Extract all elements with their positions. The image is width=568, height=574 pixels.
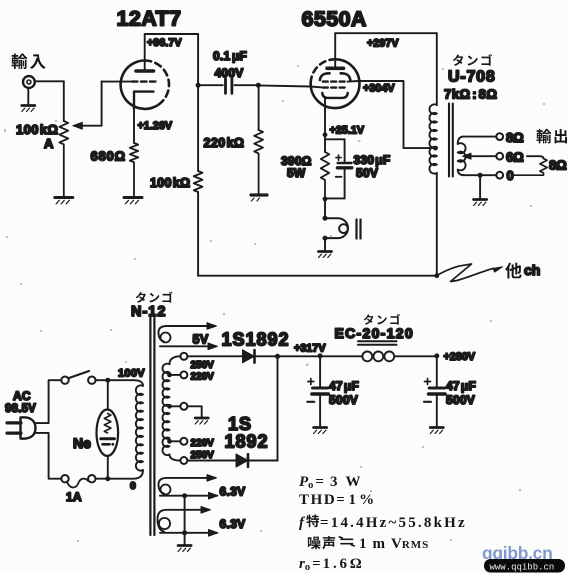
- V1 grid lead wire: [102, 81, 132, 83]
- node D2 join: [275, 354, 280, 359]
- svg-text:ro=1.6Ω: ro=1.6Ω: [299, 556, 365, 573]
- svg-text:+1.26V: +1.26V: [138, 120, 173, 132]
- svg-text:6.3V: 6.3V: [220, 517, 246, 531]
- terminal 8Ω: [496, 133, 503, 140]
- svg-text:400V: 400V: [215, 66, 244, 80]
- spec text 噪声=1mVrms: [308, 536, 429, 552]
- svg-text:1892: 1892: [225, 432, 269, 452]
- tap center with ground: [167, 403, 208, 424]
- T2 6.3V winding 1: [159, 475, 219, 499]
- svg-text:5V: 5V: [193, 333, 209, 347]
- tap 220V top: [167, 371, 187, 378]
- V1 cathode: [134, 92, 154, 109]
- svg-text:8Ω: 8Ω: [549, 158, 567, 173]
- svg-text:=14.4Hz~55.8kHz: =14.4Hz~55.8kHz: [320, 515, 467, 531]
- wiper arrow of VR1: [73, 81, 102, 129]
- svg-text:220V: 220V: [191, 438, 215, 449]
- ground (C4): [430, 428, 443, 434]
- ground (C3): [314, 428, 327, 434]
- svg-text:100V: 100V: [118, 368, 145, 380]
- svg-text:Ne: Ne: [73, 435, 91, 451]
- ground (pot): [55, 198, 73, 204]
- V1 grid: [132, 80, 156, 82]
- svg-text:U-708: U-708: [448, 69, 496, 86]
- svg-text:N-12: N-12: [131, 304, 166, 320]
- svg-text:7kΩ:8Ω: 7kΩ:8Ω: [444, 87, 497, 102]
- wire B+ rail drop to OPT primary: [436, 33, 438, 105]
- input jack J1: [23, 76, 35, 88]
- svg-text:0.1μF: 0.1μF: [213, 49, 247, 63]
- tap 220V bottom: [167, 438, 187, 445]
- T2 6.3V winding 2: [158, 507, 219, 537]
- T1 core: [449, 104, 453, 177]
- svg-text:5W: 5W: [287, 166, 306, 180]
- label input 輸入: [11, 53, 45, 68]
- svg-text:330μF: 330μF: [354, 153, 391, 167]
- fuse F1 1A: [61, 475, 95, 487]
- wire plug to fuse: [36, 433, 62, 479]
- T2 core: [150, 318, 154, 536]
- V2 cathode: [322, 93, 347, 98]
- V2 control grid: [323, 86, 348, 88]
- svg-text:12AT7: 12AT7: [117, 7, 182, 31]
- wire 8Ω tap: [464, 136, 497, 138]
- transformer T1 primary: [429, 104, 436, 173]
- load resistor 8Ω: [513, 156, 547, 175]
- scan speckles: [4, 65, 545, 542]
- svg-text:+96.7V: +96.7V: [147, 37, 182, 49]
- svg-text:0: 0: [130, 480, 136, 492]
- svg-text:98.5V: 98.5V: [5, 403, 36, 415]
- capacitor C4 47μF 500V: [424, 379, 445, 427]
- filament of V2: [323, 216, 349, 241]
- label 他ch: [505, 262, 540, 278]
- wire fuse to 0 tap: [96, 478, 134, 480]
- node UL tap: [433, 146, 438, 151]
- tube V2 6550A envelope: [311, 59, 360, 108]
- ground bar (R4): [251, 195, 267, 201]
- T1 secondary: [458, 137, 466, 176]
- V2 beam plates: [320, 73, 350, 80]
- svg-text:220V: 220V: [191, 372, 215, 383]
- choke L1 core: [358, 341, 397, 345]
- label タンゴ (OPT): [453, 54, 492, 66]
- T1 primary bottom lead: [436, 173, 438, 276]
- choke L1: [320, 352, 437, 362]
- node Ne bottom: [105, 476, 110, 481]
- svg-text:www.qqibb.cn: www.qqibb.cn: [490, 563, 555, 573]
- svg-text:680Ω: 680Ω: [91, 149, 126, 164]
- V1 plate: [136, 34, 154, 71]
- AC plug: [7, 417, 36, 438]
- terminal 250V bottom: [180, 457, 187, 464]
- node rail / other channel: [434, 273, 439, 278]
- ground (R2): [124, 198, 142, 204]
- svg-text:1A: 1A: [66, 490, 82, 504]
- svg-text:100kΩ: 100kΩ: [16, 122, 58, 137]
- svg-text:220kΩ: 220kΩ: [204, 136, 245, 150]
- svg-text:ch: ch: [524, 262, 540, 278]
- terminal 6Ω: [496, 153, 503, 160]
- terminal 250V top: [180, 353, 187, 360]
- heater ground bus: [178, 493, 191, 551]
- svg-text:50V: 50V: [356, 166, 378, 180]
- node secondary ground junction: [478, 173, 483, 178]
- heater bars: [357, 220, 361, 239]
- capacitor C2 330μF 50V: [336, 139, 352, 198]
- wire V1 top rail: [145, 33, 198, 35]
- T2 5V winding: [159, 323, 218, 350]
- wire V2 top rail +297V: [335, 32, 437, 34]
- capacitor C3 47μF 500V: [307, 356, 328, 426]
- label タンゴ (PT): [136, 292, 173, 303]
- wire switch to 100V tap: [96, 379, 134, 381]
- svg-text:8Ω: 8Ω: [506, 130, 524, 145]
- svg-text:1mVRMS: 1mVRMS: [359, 536, 429, 552]
- svg-text:Po=3W: Po=3W: [299, 474, 360, 491]
- svg-text:+304V: +304V: [363, 83, 395, 95]
- T2 HT secondary: [163, 356, 180, 460]
- wire cathode bracket top: [325, 138, 345, 140]
- node +317V: [318, 353, 323, 358]
- V2 cathode lead: [324, 98, 326, 139]
- svg-text:EC-20-120: EC-20-120: [335, 325, 414, 341]
- resistor R4 220kΩ grid leak: [254, 85, 263, 193]
- node Ne top: [105, 378, 110, 383]
- tube V1 12AT7 envelope: [121, 60, 169, 108]
- V2 plate: [327, 33, 344, 68]
- wire jack to pot top: [35, 80, 64, 82]
- watermark pill: [484, 559, 565, 573]
- svg-text:250V: 250V: [191, 450, 215, 461]
- svg-text:500V: 500V: [446, 393, 475, 407]
- label タンゴ (choke): [364, 314, 400, 325]
- wire plug to switch: [36, 380, 62, 423]
- svg-text:AC: AC: [13, 389, 31, 403]
- wire junction to V2 grid: [258, 85, 323, 87]
- svg-text:100kΩ: 100kΩ: [150, 176, 190, 190]
- svg-text:THD=1%: THD=1%: [299, 492, 376, 508]
- resistor R2 680Ω: [130, 143, 138, 196]
- svg-text:A: A: [44, 136, 54, 151]
- label 輸出: [536, 129, 567, 144]
- node C1/R4 junction: [256, 83, 261, 88]
- transformer T2 primary: [134, 380, 144, 479]
- wire 0 tap: [464, 174, 497, 176]
- svg-text:+280V: +280V: [444, 351, 476, 363]
- svg-text:6.3V: 6.3V: [220, 485, 246, 499]
- svg-text:+25.1V: +25.1V: [330, 125, 365, 137]
- spec text f特=14.4Hz~55.8kHz: [299, 515, 467, 531]
- resistor R3 100kΩ plate load: [194, 171, 203, 192]
- svg-text:47μF: 47μF: [446, 379, 476, 393]
- node cathode +25.1V: [323, 132, 328, 137]
- wire cathode bracket bottom: [325, 197, 345, 199]
- ground (jack): [22, 88, 35, 112]
- svg-text:6550A: 6550A: [302, 7, 367, 31]
- resistor R5 390Ω 5W: [321, 139, 329, 198]
- ground (secondary): [474, 175, 487, 205]
- neon lamp Ne: [97, 380, 119, 479]
- svg-text:47μF: 47μF: [329, 379, 359, 393]
- svg-text:250V: 250V: [191, 360, 215, 371]
- wire plate rail drop to coupling node: [197, 34, 199, 171]
- wire 6Ω tap with arrow: [463, 153, 497, 159]
- svg-text:+297V: +297V: [367, 38, 399, 50]
- V2 screen grid: [323, 80, 348, 82]
- wire R3 to B+ rail: [197, 192, 199, 276]
- wire V2 screen to UL tap: [348, 81, 435, 148]
- B+ rail horizontal: [198, 275, 437, 277]
- node bracket bottom: [323, 197, 328, 202]
- diode D1 1S1892: [188, 350, 321, 363]
- diode D2 1S1892: [188, 454, 278, 467]
- svg-text:500V: 500V: [329, 393, 358, 407]
- capacitor C1 0.1μF coupling: [198, 79, 258, 94]
- wire pot top drop: [63, 81, 65, 121]
- potentiometer VR1 100kΩ A: [59, 121, 68, 196]
- wire +280 riser: [436, 356, 438, 387]
- svg-text:6Ω: 6Ω: [506, 150, 524, 165]
- svg-text:f: f: [299, 515, 306, 531]
- wire to filament: [324, 198, 326, 218]
- ground (filament): [319, 238, 332, 257]
- terminal 0: [496, 172, 503, 179]
- wire D2 output riser: [277, 356, 279, 460]
- svg-text:1S1892: 1S1892: [222, 330, 290, 350]
- node plate/cap junction: [196, 83, 201, 88]
- svg-text:+317V: +317V: [294, 343, 326, 355]
- node +280V: [434, 353, 439, 358]
- wire squiggle to other channel: [438, 264, 503, 282]
- switch S1: [61, 371, 95, 384]
- wire cathode to R2: [133, 109, 135, 143]
